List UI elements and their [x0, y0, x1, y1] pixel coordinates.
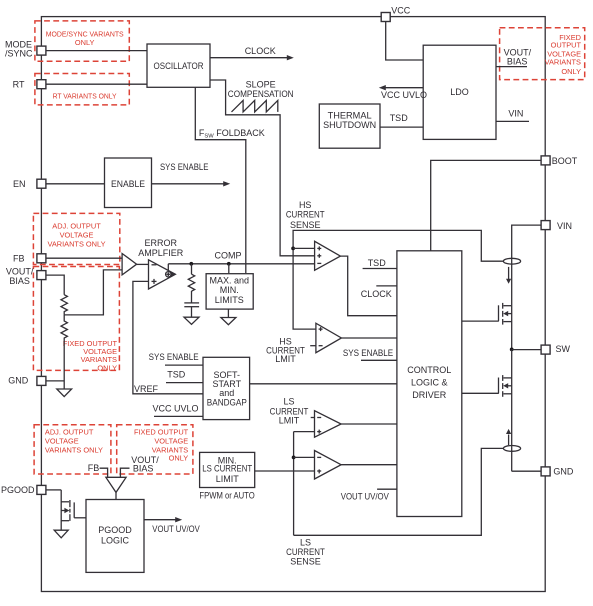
svg-text:FIXED OUTPUT: FIXED OUTPUT: [134, 427, 189, 436]
svg-text:CLOCK: CLOCK: [361, 289, 392, 299]
soft start and bandgap block: [203, 357, 250, 419]
red dashed box MODE/SYNC variants: [35, 21, 129, 61]
PGOOD pin wire: [46, 490, 61, 530]
ground below PGOOD FET: [54, 530, 68, 538]
stub HS limit minus: [310, 345, 316, 347]
LS sense current arrow: [506, 429, 511, 445]
wire to comp1 +1: [293, 247, 315, 249]
svg-text:ADJ. OUTPUT: ADJ. OUTPUT: [52, 221, 101, 230]
svg-text:and: and: [219, 388, 234, 398]
svg-text:SYS ENABLE: SYS ENABLE: [343, 348, 393, 358]
label LS CURRENT SENSE: [286, 537, 325, 566]
svg-text:VCC UVLO: VCC UVLO: [152, 403, 198, 413]
label LS CURRENT LMIT: [270, 396, 309, 425]
svg-text:SHUTDOWN: SHUTDOWN: [323, 120, 376, 130]
svg-text:SENSE: SENSE: [290, 220, 321, 230]
svg-text:BIAS: BIAS: [133, 464, 154, 474]
LDO block: [423, 45, 496, 139]
oscillator U-OSC: [147, 44, 210, 87]
svg-text:CURRENT: CURRENT: [286, 547, 325, 557]
svg-text:VIN: VIN: [557, 221, 572, 231]
svg-text:COMP: COMP: [215, 251, 242, 261]
wire comp2 output: [341, 337, 397, 339]
svg-text:GND: GND: [553, 466, 574, 476]
comparator HS current limit: [316, 323, 342, 353]
wire FB pin to buffer: [46, 257, 122, 259]
wire BOOT to control logic: [431, 160, 541, 250]
stub SYS ENABLE softstart: [149, 352, 203, 365]
pgood logic block: [86, 500, 144, 573]
label HS CURRENT SENSE: [286, 200, 325, 230]
red dashed box adj output voltage variants (mid left): [33, 213, 119, 264]
wire LS gate: [462, 392, 499, 394]
node dot COMP: [227, 262, 231, 266]
svg-text:MIN.: MIN.: [220, 285, 239, 295]
svg-text:GND: GND: [8, 376, 29, 386]
svg-text:SYS ENABLE: SYS ENABLE: [149, 352, 199, 362]
wire VCC to LDO: [386, 22, 424, 61]
svg-text:SENSE: SENSE: [290, 556, 321, 566]
svg-text:BOOT: BOOT: [552, 156, 578, 166]
pin MODE/SYNC: [5, 40, 46, 59]
svg-text:VOLTAGE: VOLTAGE: [154, 436, 188, 445]
wire CLOCK arrow: [210, 46, 294, 60]
control logic and driver block: [397, 251, 462, 517]
stub SYS ENABLE control: [343, 348, 397, 360]
wire SYS ENABLE arrow: [152, 162, 231, 186]
svg-text:LDO: LDO: [450, 87, 469, 97]
svg-text:LOGIC &: LOGIC &: [411, 378, 448, 388]
svg-text:ONLY: ONLY: [97, 363, 117, 372]
svg-text:/SYNC: /SYNC: [5, 48, 33, 58]
wire SW node: [510, 348, 514, 352]
HS sense current arrow: [506, 267, 511, 284]
wire LS sense vertical to comparators: [294, 431, 315, 433]
wire FSW foldback: [195, 87, 246, 273]
compensation capacitor: [184, 303, 199, 317]
svg-text:VOUT UV/OV: VOUT UV/OV: [152, 524, 200, 534]
svg-text:ONLY: ONLY: [561, 67, 581, 76]
svg-text:CONTROL: CONTROL: [407, 365, 451, 375]
svg-text:ADJ. OUTPUT: ADJ. OUTPUT: [45, 427, 94, 436]
svg-text:BIAS: BIAS: [9, 276, 30, 286]
error amplifier: [138, 238, 184, 289]
stub LS limit minus: [311, 417, 315, 419]
svg-text:AMPLFIER: AMPLFIER: [138, 248, 184, 258]
wire comp1 output: [340, 256, 397, 316]
svg-text:PGOOD: PGOOD: [98, 525, 132, 535]
svg-text:DRIVER: DRIVER: [412, 390, 447, 400]
svg-text:LIMIT: LIMIT: [216, 474, 240, 484]
pin PGOOD: [1, 485, 46, 495]
HS current sense ellipse: [503, 258, 520, 264]
svg-text:TSD: TSD: [167, 370, 186, 380]
min LS current limit block: [199, 452, 254, 500]
stub VCC UVLO softstart: [152, 403, 203, 416]
svg-text:BIAS: BIAS: [507, 56, 528, 66]
svg-text:VOUT/: VOUT/: [6, 267, 34, 277]
VOUT/BIAS hook label: [120, 455, 159, 478]
wire VOUT/BIAS pin to divider: [46, 275, 64, 295]
FB buffer amp: [122, 254, 137, 275]
wire R2 to GND pin: [63, 342, 65, 389]
pin VOUT/BIAS: [6, 267, 46, 287]
svg-text:VOLTAGE: VOLTAGE: [45, 436, 79, 445]
wire VOUT/BIAS stub from LDO: [496, 47, 532, 66]
pin RT: [13, 80, 46, 90]
svg-text:ONLY: ONLY: [169, 454, 189, 463]
svg-text:FB: FB: [13, 253, 25, 263]
transistor PGOOD FET: [61, 500, 86, 521]
pin FB: [13, 253, 46, 263]
svg-text:FB: FB: [88, 463, 100, 473]
pin SW: [541, 344, 570, 354]
node dot comp4: [292, 456, 296, 460]
svg-text:BANDGAP: BANDGAP: [207, 398, 247, 408]
wire buffer to error amp: [137, 263, 149, 265]
pin VCC: [381, 5, 411, 21]
svg-text:ERROR: ERROR: [144, 238, 177, 248]
wire LS sense tap: [294, 448, 504, 535]
svg-text:COMPENSATION: COMPENSATION: [228, 89, 294, 99]
max and min limits block: [206, 274, 253, 309]
wire VOUT UV/OV arrow from pgood: [144, 517, 200, 534]
svg-text:SW: SW: [556, 344, 571, 354]
svg-text:VREF: VREF: [134, 384, 159, 394]
wire VIN stub from LDO: [496, 109, 529, 122]
compensation resistor: [188, 264, 194, 303]
svg-text:ONLY: ONLY: [75, 38, 95, 47]
resistor R1: [61, 295, 67, 315]
node dot RC branch: [189, 262, 193, 266]
wire softstart output: [250, 383, 397, 385]
wire COMP to max/min limits: [228, 264, 230, 273]
ground below max/min limits: [221, 309, 236, 325]
svg-text:TSD: TSD: [390, 113, 409, 123]
red dashed box fixed output voltage variants (mid left): [33, 267, 119, 373]
wire VIN pin to HS drain: [512, 225, 541, 306]
svg-text:THERMAL: THERMAL: [328, 111, 372, 121]
svg-text:FPWM or AUTO: FPWM or AUTO: [199, 490, 254, 500]
stub TSD softstart: [166, 370, 203, 383]
svg-text:VARIANTS: VARIANTS: [545, 58, 581, 67]
resistor R2: [61, 315, 67, 342]
wire divider tap to buffer: [64, 270, 122, 315]
wire comp4 output: [341, 464, 397, 466]
svg-text:RT VARIANTS ONLY: RT VARIANTS ONLY: [53, 91, 117, 100]
wire comp3 output: [341, 423, 397, 425]
comparator LS current limit: [315, 411, 342, 438]
svg-text:VCC: VCC: [391, 5, 411, 15]
slope compensation label: [228, 80, 294, 99]
node dot comp1 input: [291, 247, 295, 251]
svg-text:LS: LS: [283, 396, 294, 406]
mux triangle: [106, 477, 126, 492]
wire HS gate: [462, 320, 499, 322]
thermal shutdown block: [319, 104, 380, 148]
svg-text:VOUT UV/OV: VOUT UV/OV: [341, 492, 389, 502]
pin GND right: [541, 466, 574, 476]
sawtooth waveform: [232, 100, 278, 112]
svg-text:VARIANTS ONLY: VARIANTS ONLY: [45, 445, 103, 454]
comparator HS current sense: [315, 241, 341, 270]
svg-text:ENABLE: ENABLE: [111, 179, 145, 189]
transistor LS FET: [499, 349, 512, 471]
svg-text:SYS ENABLE: SYS ENABLE: [160, 162, 208, 172]
ground below divider: [57, 389, 72, 397]
svg-text:LOGIC: LOGIC: [101, 536, 130, 546]
wire mux to pgood logic: [115, 492, 117, 499]
svg-text:CLOCK: CLOCK: [245, 46, 276, 56]
svg-text:PGOOD: PGOOD: [1, 485, 35, 495]
pin GND left: [8, 376, 46, 386]
stub CLOCK control: [361, 286, 397, 299]
label HS CURRENT LMIT: [266, 337, 305, 365]
red dashed box fixed output (bottom): [117, 425, 193, 474]
svg-text:VIN: VIN: [508, 109, 523, 119]
comparator MIN LS: [315, 451, 342, 480]
svg-text:RT: RT: [13, 80, 25, 90]
FB hook label: [88, 463, 108, 477]
wire MODE/SYNC to oscillator: [46, 50, 147, 52]
stub VOUT UV/OV control: [341, 489, 397, 502]
svg-text:LIMITS: LIMITS: [215, 295, 244, 305]
wire VCC UVLO arrow: [379, 85, 427, 100]
label FSW FOLDBACK: [199, 128, 265, 140]
red dashed box RT variants: [35, 74, 129, 105]
red dashed box fixed output voltage variants (top right): [500, 28, 585, 80]
svg-text:HS: HS: [299, 200, 312, 210]
stub TSD control: [363, 258, 397, 268]
svg-text:VARIANTS ONLY: VARIANTS ONLY: [47, 240, 105, 249]
svg-text:OSCILLATOR: OSCILLATOR: [154, 61, 204, 71]
svg-text:MAX. and: MAX. and: [210, 275, 250, 285]
svg-text:CURRENT: CURRENT: [286, 210, 325, 220]
wire RT to oscillator: [46, 83, 147, 85]
svg-text:VOLTAGE: VOLTAGE: [60, 230, 94, 239]
pin BOOT: [541, 156, 578, 166]
svg-text:LS CURRENT: LS CURRENT: [202, 464, 252, 474]
wire EN to enable: [46, 183, 105, 185]
enable block: [105, 158, 152, 208]
svg-text:LS: LS: [300, 537, 311, 547]
wire min LS block to comp4: [255, 470, 315, 472]
wire TSD thermal to LDO: [380, 113, 423, 127]
wire VREF to error amp: [133, 281, 203, 394]
wire COMP rail: [167, 264, 169, 272]
pin VIN: [541, 221, 572, 231]
ground below compensation: [184, 317, 199, 324]
wire slope compensation: [210, 80, 315, 256]
LS current sense ellipse: [503, 446, 520, 452]
transistor HS FET: [499, 303, 512, 350]
svg-text:OUTPUT: OUTPUT: [551, 41, 582, 50]
svg-text:VCC UVLO: VCC UVLO: [381, 90, 427, 100]
svg-text:TSD: TSD: [368, 258, 387, 268]
svg-text:LMIT: LMIT: [279, 416, 300, 426]
red dashed box adj output (bottom): [34, 425, 111, 474]
wire HS sense tap: [293, 230, 503, 329]
svg-text:EN: EN: [13, 179, 26, 189]
wire LS FET source to GND pin: [512, 470, 541, 472]
svg-text:LMIT: LMIT: [275, 354, 296, 364]
pin EN: [13, 179, 46, 189]
